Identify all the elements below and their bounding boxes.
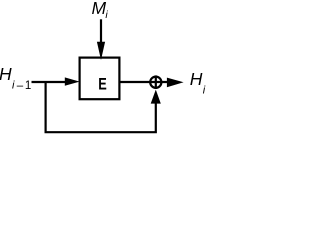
svg-text:–: – (17, 80, 24, 92)
wire M_i down (100, 19, 102, 43)
svg-text:H: H (0, 64, 12, 84)
svg-text:i: i (12, 80, 15, 92)
arrowhead into box left (65, 77, 80, 85)
svg-text:1: 1 (25, 80, 31, 92)
label E (98, 75, 107, 94)
arrowhead up into xor (151, 90, 161, 104)
arrowhead output (167, 78, 184, 88)
wire H_{i-1} input (32, 81, 68, 83)
svg-text:H: H (190, 69, 203, 89)
xor circle (150, 77, 161, 88)
wire feed-forward (down, across bottom, up) (46, 81, 156, 132)
svg-text:E: E (98, 75, 107, 94)
label H_i (190, 69, 206, 96)
xor vertical bar (155, 75, 157, 89)
svg-text:M: M (92, 0, 107, 18)
label M_i (92, 0, 109, 21)
svg-text:i: i (203, 84, 206, 96)
wire box to xor to output arrow (120, 81, 169, 83)
label H_{i-1} (0, 64, 31, 92)
arrowhead into box top (97, 42, 105, 60)
box E (80, 58, 120, 100)
svg-text:i: i (105, 9, 108, 21)
